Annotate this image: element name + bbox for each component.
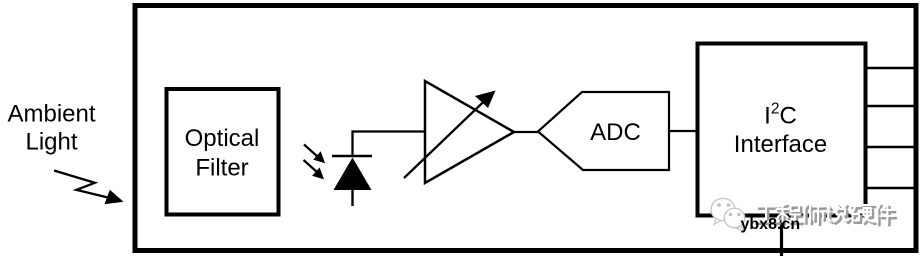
block: Optical Filter (167, 89, 279, 215)
incident-light zigzag arrow (54, 171, 124, 205)
wire: photodiode cathode to amplifier input (353, 132, 425, 155)
svg-text:Interface: Interface (734, 131, 827, 158)
photodiode D1 (304, 145, 373, 207)
svg-text:Ambient: Ambient (7, 101, 95, 128)
anode stub (351, 190, 353, 206)
block: ADC (538, 92, 669, 170)
watermark wechat logo (711, 198, 745, 231)
diode body (334, 158, 372, 191)
bottom pin wire from I2C interface (780, 215, 783, 256)
svg-text:Optical: Optical (185, 125, 260, 152)
wire: amplifier output to ADC (514, 131, 539, 133)
pin stub 2 (866, 105, 917, 107)
light arrow 1 (304, 145, 318, 158)
amplifier A1 (variable gain) (404, 81, 514, 183)
svg-text:Filter: Filter (195, 155, 248, 182)
wire: ADC to I2C interface (669, 130, 697, 132)
cathode bar (332, 155, 372, 158)
pin stub 1 (I2C to chip edge) (866, 67, 917, 69)
svg-text:Light: Light (25, 129, 77, 156)
svg-text:ybx8.cn: ybx8.cn (741, 216, 801, 233)
pin stub 3 (866, 146, 917, 148)
svg-text:ADC: ADC (590, 119, 641, 146)
gain arrow (404, 98, 488, 178)
pin stub 4 (866, 187, 917, 189)
light arrow 2 (304, 160, 318, 173)
svg-text:I2C: I2C (764, 101, 797, 130)
block: I2C Interface (698, 44, 866, 216)
